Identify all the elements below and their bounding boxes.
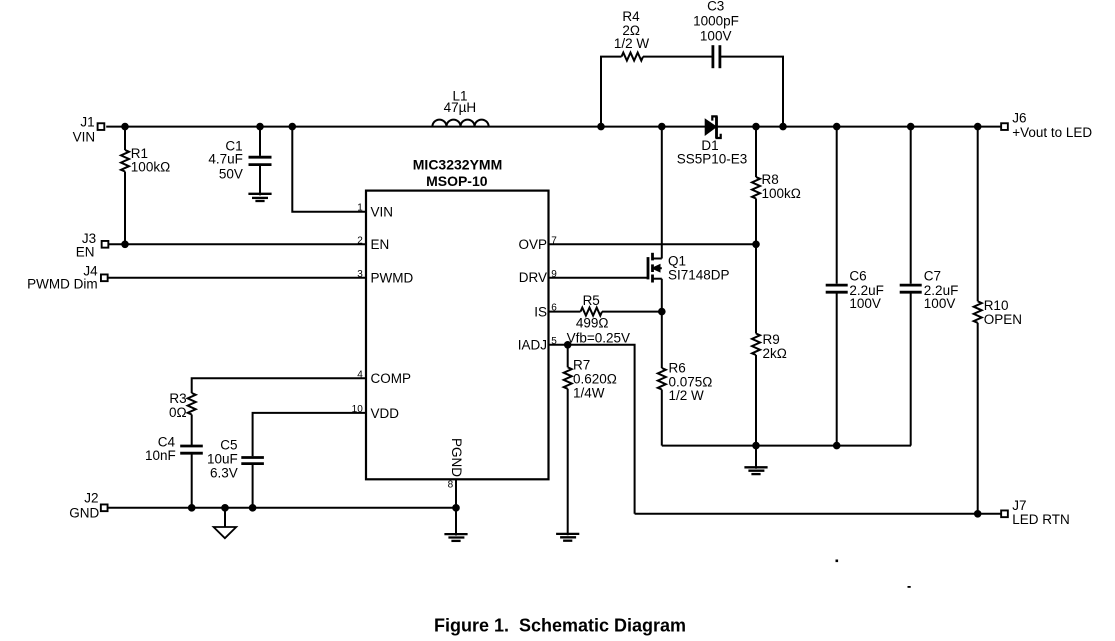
wire ground bus [662,445,911,447]
node rail R10 [974,123,982,131]
svg-text:C6: C6 [849,269,866,284]
svg-text:R9: R9 [763,332,780,347]
ground under C1 [248,193,271,195]
svg-text:J7: J7 [1012,498,1026,513]
svg-text:SS5P10-E3: SS5P10-E3 [677,152,748,167]
svg-text:LED RTN: LED RTN [1012,512,1070,527]
node bus R9 [752,442,760,450]
svg-text:J1: J1 [80,114,94,129]
svg-text:C7: C7 [924,269,941,284]
speck 1 [836,560,839,563]
svg-text:9: 9 [551,269,557,280]
svg-text:PWMD Dim: PWMD Dim [27,277,98,292]
resistor R9 [755,244,757,333]
svg-text:6: 6 [551,303,557,314]
svg-text:Figure 1. Schematic Diagram: Figure 1. Schematic Diagram [434,615,686,635]
svg-text:2: 2 [357,235,363,246]
svg-text:J6: J6 [1012,110,1026,125]
resistor R5 [581,308,602,316]
svg-text:4.7uF: 4.7uF [208,152,243,167]
wire VDD line pin 10 [253,413,366,456]
svg-text:IS: IS [534,304,547,319]
svg-text:5: 5 [551,336,557,347]
svg-text:EN: EN [371,237,390,252]
wire EN line [109,243,366,245]
wire IS line pin 6 [549,311,581,313]
resistor R3 [188,393,196,415]
svg-text:C5: C5 [220,437,237,452]
svg-text:R5: R5 [583,293,600,308]
svg-text:100kΩ: 100kΩ [762,186,801,201]
svg-text:7: 7 [551,235,557,246]
wire C3 right to right vertical down [721,57,783,127]
node rail Q1 drain [658,123,666,131]
svg-text:10nF: 10nF [145,448,176,463]
svg-text:SI7148DP: SI7148DP [668,268,730,283]
node IADJ R7 [564,341,572,349]
wire main VIN rail [106,126,1001,128]
node EN R1 [121,241,129,249]
svg-text:1/4W: 1/4W [573,386,605,401]
resistor R7 [567,345,569,368]
svg-text:Q1: Q1 [668,254,686,269]
svg-text:1/2 W: 1/2 W [669,388,705,403]
wire PWMD line [108,277,366,279]
node J7 R10 [974,510,982,518]
node GND triangle [221,504,229,512]
ground under R7 [556,533,579,535]
svg-text:6.3V: 6.3V [210,465,238,480]
svg-text:VIN: VIN [73,130,96,145]
svg-text:VDD: VDD [371,406,400,421]
svg-text:C3: C3 [707,0,724,14]
inductor L1 [432,120,488,127]
capacitor C5 [241,456,264,459]
wire R4/C3 loop left vertical [601,57,622,127]
capacitor C1 [259,127,261,156]
wire OVP line pin 7 [549,243,757,245]
connector J3 [102,241,109,248]
svg-text:Vfb=0.25V: Vfb=0.25V [567,331,630,346]
node GND R3C4 [188,504,196,512]
capacitor C3 [712,45,715,68]
connector J6 [1001,123,1008,130]
connector J1 [98,123,105,130]
node rail R4 left [597,123,605,131]
svg-text:2kΩ: 2kΩ [763,346,787,361]
wire COMP line pin 4 [192,378,366,393]
wire VIN branch to pin 1 [292,127,366,212]
node GND C5 [249,504,257,512]
svg-text:10uF: 10uF [207,452,238,467]
svg-text:1000pF: 1000pF [693,14,739,29]
svg-text:0.620Ω: 0.620Ω [573,371,617,386]
node rail C6 [833,123,841,131]
svg-text:GND: GND [69,506,99,521]
svg-text:1: 1 [357,203,363,214]
wire DRV line pin 9 [549,277,649,279]
ground under pin 8 [455,508,457,536]
svg-text:47µH: 47µH [444,100,477,115]
op-amp U1 MIC3232YMM IC body [366,191,549,480]
svg-text:0Ω: 0Ω [169,405,187,420]
node GND pin8 [452,504,460,512]
speck 2 [908,586,911,588]
svg-text:1/2 W: 1/2 W [614,36,650,51]
svg-text:OVP: OVP [518,237,547,252]
svg-text:R3: R3 [169,391,186,406]
node rail R8 [752,123,760,131]
svg-text:DRV: DRV [519,270,547,285]
connector J7 [1001,510,1008,517]
node IS Q1 source [658,308,666,316]
svg-text:R8: R8 [762,172,779,187]
svg-text:100V: 100V [700,28,732,43]
svg-text:VIN: VIN [371,204,394,219]
svg-text:100kΩ: 100kΩ [131,160,170,175]
capacitor C4 [180,445,203,448]
wire pin 8 stub [455,479,457,508]
svg-text:3: 3 [357,269,363,280]
node rail C7 [907,123,915,131]
svg-text:OPEN: OPEN [984,312,1022,327]
wire IS line right segment [602,311,662,313]
svg-text:+Vout to LED: +Vout to LED [1012,125,1092,140]
node bus C6 [833,442,841,450]
svg-text:10: 10 [352,404,364,415]
svg-text:EN: EN [76,244,95,259]
node rail C3 right [779,123,787,131]
resistor R8 [755,127,757,177]
resistor R4 [622,53,643,61]
svg-text:J2: J2 [84,491,98,506]
svg-text:R7: R7 [573,357,590,372]
connector J4 [101,274,108,281]
wire J7 LED RTN line [635,513,1001,515]
svg-text:8: 8 [448,480,454,491]
svg-text:MIC3232YMM: MIC3232YMM [413,156,502,172]
svg-text:PWMD: PWMD [371,271,414,286]
wire R4/C3 loop top right segment [643,56,712,58]
resistor R10 [977,127,979,302]
node rail VIN branch [289,123,297,131]
svg-text:MSOP-10: MSOP-10 [426,173,488,189]
ground open triangle [224,508,226,527]
capacitor C7 [910,127,912,284]
svg-text:PGND: PGND [449,438,464,477]
wire IADJ line pin 5 [549,345,635,514]
capacitor C6 [836,127,838,284]
resistor R6 [658,368,666,390]
node OVP R8 R9 [752,241,760,249]
svg-text:R4: R4 [622,9,640,24]
wire GND line [108,507,456,509]
resistor R1 [124,127,126,150]
svg-text:499Ω: 499Ω [576,316,609,331]
svg-text:4: 4 [357,369,363,380]
svg-text:IADJ: IADJ [518,338,547,353]
svg-text:100V: 100V [924,296,956,311]
diode D1 [706,120,716,134]
node rail C1 [256,123,264,131]
connector J2 [101,504,108,511]
svg-text:100V: 100V [849,296,881,311]
transistor Q1 [661,127,663,259]
node rail J1 [121,123,129,131]
ground under bus [755,446,757,469]
svg-text:COMP: COMP [371,371,412,386]
svg-text:50V: 50V [219,167,243,182]
